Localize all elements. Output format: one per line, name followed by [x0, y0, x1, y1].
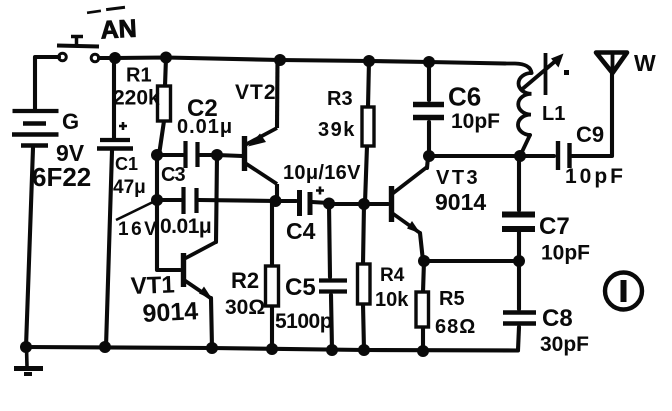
wire C3 row y200 [157, 198, 181, 202]
svg-text:10pF: 10pF [565, 165, 626, 188]
wire y156 C6 to L1 node [429, 154, 520, 158]
label 6F22 [32, 162, 91, 192]
junction C7 C8 [513, 255, 525, 267]
label 0.01u bottom [160, 215, 211, 238]
junction R4 ground rail [358, 344, 370, 356]
junction C6 VT3 collector [423, 150, 435, 162]
label 68ohm [435, 316, 476, 338]
resistor R3 [362, 107, 374, 146]
label R2 [231, 268, 259, 293]
svg-text:39k: 39k [318, 119, 356, 141]
label 10pF of C9 [565, 165, 626, 188]
svg-text:VT2: VT2 [235, 81, 277, 104]
junction C4 C5 [323, 198, 335, 210]
wire R4 top lead [363, 204, 364, 264]
wire top rail [99, 58, 505, 64]
junction node A upper [151, 149, 163, 161]
svg-text:C4: C4 [286, 218, 316, 244]
wire R2 bottom lead [270, 306, 274, 349]
label 9014 of VT1 [142, 297, 199, 328]
junction L1 bottom C9 [514, 150, 526, 162]
wire C1 branch down from rail [112, 58, 116, 140]
wire R5 bottom lead [421, 327, 425, 351]
resistor R2 [266, 266, 279, 306]
capacitor C1 [97, 122, 133, 149]
wire C4 right lead [312, 202, 329, 203]
wire C3 right to C4 node [199, 200, 277, 201]
svg-text:C3: C3 [161, 164, 185, 186]
svg-text:30pF: 30pF [540, 333, 589, 356]
label C4 [286, 218, 316, 244]
leader line 16V [116, 202, 153, 220]
label C8 [542, 305, 573, 332]
transistor VT1 [184, 242, 217, 300]
label 10k [375, 289, 409, 311]
battery G [12, 111, 59, 146]
wire L1 node to C9 [520, 154, 554, 158]
svg-text:R2: R2 [231, 268, 259, 293]
svg-text:VT1: VT1 [130, 271, 175, 300]
svg-text:10μ/16V: 10μ/16V [283, 162, 361, 184]
label R3 [327, 88, 353, 110]
label 30pF [540, 333, 589, 356]
label 47u [113, 177, 146, 198]
label VT3 [436, 167, 480, 189]
resistor R1 [158, 86, 171, 121]
svg-text:C1: C1 [115, 154, 138, 174]
wire R1 top lead [165, 58, 166, 87]
transistor VT3 [392, 167, 428, 234]
wire R3 top lead [368, 61, 369, 107]
wire C5 bottom lead [331, 295, 332, 350]
wire C6 top lead [427, 62, 431, 100]
wire C5 top lead [329, 204, 330, 277]
label 10u16V [283, 162, 361, 184]
label 0.01u top [177, 116, 233, 138]
junction R3 R4 VT3 base [358, 198, 370, 210]
svg-text:C8: C8 [542, 305, 573, 332]
svg-text:9014: 9014 [142, 297, 199, 328]
svg-text:6F22: 6F22 [32, 162, 91, 192]
capacitor C8 [503, 313, 536, 324]
svg-text:0.01μ: 0.01μ [160, 215, 211, 238]
svg-text:C9: C9 [576, 122, 604, 147]
wire VT3 emitter down [420, 233, 423, 261]
label 5100p [275, 310, 332, 333]
junction C5 ground rail [326, 344, 338, 356]
capacitor C3 [184, 187, 197, 214]
capacitor C6 [413, 105, 444, 118]
label VT2 [235, 81, 277, 104]
label 16V [118, 219, 159, 240]
label C9 [576, 122, 604, 147]
label 9V [56, 140, 85, 166]
svg-text:10k: 10k [375, 289, 409, 311]
svg-text:C6: C6 [448, 82, 481, 112]
label 220k [113, 87, 160, 110]
svg-text:R5: R5 [439, 288, 465, 310]
resistor R4 [358, 264, 371, 304]
wire C1 bottom to ground rail [106, 151, 112, 347]
switch AN [57, 37, 99, 62]
capacitor C4 [300, 187, 325, 217]
antenna W [596, 53, 627, 74]
trimmer arrow of L1 [520, 53, 569, 95]
wire C2 left lead [157, 153, 183, 157]
circled figure 1 mark [605, 273, 642, 310]
junction VT1 emitter ground rail [206, 342, 218, 354]
wire VT1 emitter to ground rail [211, 298, 212, 348]
wire C6 bottom lead [427, 122, 431, 156]
wire C7 top lead [517, 156, 521, 210]
svg-text:R3: R3 [327, 88, 353, 110]
wire VT2 base / VT1 collector tie [216, 155, 217, 242]
wire C8 bottom lead [518, 327, 519, 350]
wire battery+ to switch [35, 57, 59, 109]
svg-text:C7: C7 [539, 213, 570, 240]
svg-text:68Ω: 68Ω [435, 316, 476, 338]
junction VT2 emitter R2 C4 [270, 195, 282, 207]
junction R1 top rail [160, 52, 172, 64]
junction VT2 collector rail [274, 54, 286, 66]
wire C9 to antenna [572, 74, 612, 156]
wire y204 to VT3 base [329, 202, 388, 206]
label G [62, 109, 79, 134]
label 9014 of VT3 [435, 189, 486, 215]
capacitor C5 [319, 281, 347, 292]
label R5 [439, 288, 465, 310]
label L1 [542, 103, 565, 125]
svg-text:9014: 9014 [435, 189, 486, 215]
svg-text:16V: 16V [118, 219, 159, 240]
label W [634, 50, 656, 76]
capacitor C7 [502, 215, 535, 230]
svg-text:5100p: 5100p [275, 310, 332, 333]
wire C7 bottom lead [517, 232, 521, 261]
svg-text:G: G [62, 109, 79, 134]
svg-text:0.01μ: 0.01μ [177, 116, 233, 138]
wire ground rail [26, 347, 518, 351]
junction C1 top rail [109, 52, 121, 64]
wire R2 top lead [270, 201, 274, 266]
junction R2 ground rail [266, 343, 278, 355]
label C2 [187, 95, 218, 122]
wire battery- down [26, 148, 33, 347]
capacitor C9 [558, 141, 570, 170]
label 10pF of C7 [541, 242, 590, 265]
wire VT3 collector up [427, 157, 428, 168]
label C1 [115, 154, 138, 174]
wire R5 top lead [423, 261, 424, 292]
svg-text:R1: R1 [126, 65, 152, 87]
label R4 [380, 265, 405, 286]
wire C2 right to VT2 base [200, 155, 242, 156]
svg-text:L1: L1 [542, 103, 565, 125]
resistor R5 [416, 292, 429, 327]
junction R3 top rail [363, 55, 375, 67]
wire bias column node A [157, 155, 180, 270]
junction C6 top rail [423, 56, 435, 68]
svg-text:30Ω: 30Ω [225, 296, 265, 319]
junction VT3 emitter R5 [418, 255, 430, 267]
label C3 [161, 164, 185, 186]
svg-text:AN: AN [100, 15, 138, 45]
svg-text:10pF: 10pF [541, 242, 590, 265]
junction battery ground rail [20, 341, 32, 353]
label AN [100, 15, 138, 45]
svg-text:R4: R4 [380, 265, 405, 286]
svg-text:220k: 220k [113, 87, 160, 110]
junction C1 ground rail [99, 341, 111, 353]
wire R4 bottom lead [363, 304, 364, 350]
svg-text:10pF: 10pF [451, 110, 500, 133]
svg-text:W: W [634, 50, 656, 76]
capacitor C2 [186, 141, 198, 168]
wire C4 left lead [277, 199, 296, 203]
svg-text:C5: C5 [285, 274, 316, 301]
wire R3 bottom lead [365, 146, 367, 203]
label VT1 [130, 271, 175, 300]
inductor L1 [505, 64, 532, 157]
junction C2 to VT2 base [211, 149, 223, 161]
svg-text:VT3: VT3 [436, 167, 480, 189]
wire y261 emitter row [424, 259, 519, 263]
wire C8 top lead [517, 261, 521, 309]
label C7 [539, 213, 570, 240]
label C5 [285, 274, 316, 301]
transistor VT2 [245, 60, 278, 201]
wire R1 bottom lead [159, 121, 164, 155]
label 10pF of C6 [451, 110, 500, 133]
label 30ohm [225, 296, 265, 319]
junction node A lower [151, 194, 163, 206]
label C6 [448, 82, 481, 112]
junction R5 ground rail [417, 345, 429, 357]
label R1 [126, 65, 152, 87]
svg-text:47μ: 47μ [113, 177, 146, 198]
label 39k [318, 119, 356, 141]
ground [14, 347, 43, 374]
